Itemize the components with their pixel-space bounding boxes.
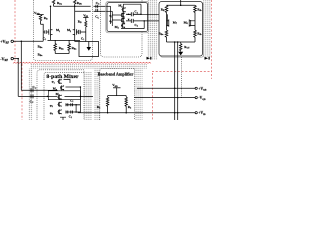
svg-text:CC: CC: [30, 99, 34, 104]
svg-text:φ3: φ3: [50, 111, 53, 116]
svg-text:VDD: VDD: [34, 11, 40, 16]
svg-text:VB2: VB2: [83, 13, 88, 18]
svg-text:C1: C1: [69, 114, 72, 119]
svg-text:VDD: VDD: [112, 83, 118, 88]
svg-text:-VQB: -VQB: [198, 96, 206, 101]
svg-text:RB: RB: [78, 20, 82, 25]
svg-text:8-path Mixer: 8-path Mixer: [46, 75, 78, 80]
svg-text:RBa: RBa: [38, 44, 43, 49]
svg-text:Baseband Amplifier: Baseband Amplifier: [98, 71, 134, 76]
svg-text:+VQB: +VQB: [198, 87, 206, 92]
svg-text:CC: CC: [96, 1, 100, 6]
svg-text:CC: CC: [95, 15, 99, 20]
svg-text:RDb: RDb: [77, 1, 83, 6]
svg-text:Rb: Rb: [97, 105, 101, 110]
svg-text:C1: C1: [81, 36, 84, 41]
svg-text:RDa: RDa: [57, 1, 62, 6]
svg-text:CC: CC: [32, 85, 36, 90]
svg-text:RBa: RBa: [72, 46, 77, 51]
svg-text:MC: MC: [56, 92, 61, 97]
svg-text:Ma: Ma: [53, 87, 57, 92]
svg-text:φ1: φ1: [52, 80, 55, 85]
svg-text:C2: C2: [70, 98, 73, 103]
svg-text:-VRF: -VRF: [0, 56, 8, 62]
svg-text:RBa: RBa: [59, 46, 64, 51]
svg-text:+VIB: +VIB: [198, 111, 206, 116]
svg-text:M2: M2: [67, 28, 71, 33]
svg-text:M1: M1: [56, 28, 60, 33]
svg-text:φ2: φ2: [50, 104, 53, 109]
svg-text:Rb: Rb: [128, 105, 132, 110]
svg-text:C1: C1: [43, 36, 46, 41]
svg-text:RB: RB: [44, 16, 48, 21]
svg-text:+VRF: +VRF: [0, 39, 9, 45]
svg-text:RBa: RBa: [38, 53, 43, 58]
